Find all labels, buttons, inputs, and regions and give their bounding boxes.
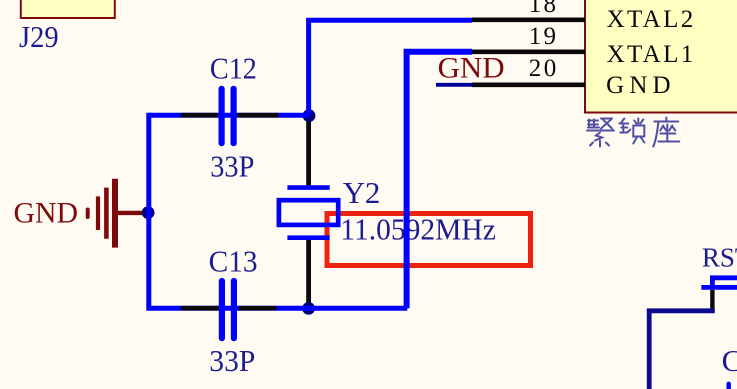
svg-text:RST: RST (702, 243, 737, 273)
capacitor C12 lead right (238, 113, 279, 118)
capacitor C13 lead left (181, 306, 219, 311)
power ground symbol (left) (88, 179, 146, 248)
svg-text:GND: GND (606, 72, 671, 99)
char 锁 (619, 119, 644, 144)
wire XTAL1 net: pin19 left then down to C13 row (over highlight box) (407, 52, 472, 308)
pin 20 lead (472, 83, 585, 88)
capacitor C12 lead left (181, 113, 218, 118)
wire XTAL2 net: pin18 left then down to node A (309, 20, 472, 115)
svg-text:C: C (722, 343, 737, 378)
wire GND stub to pin 20 (436, 83, 473, 87)
resistor pin down (710, 290, 714, 311)
svg-text:Y2: Y2 (343, 175, 381, 210)
svg-text:33P: 33P (209, 343, 255, 378)
part type text 紧锁座 (drawn strokes) (587, 118, 679, 147)
connector J29 body (top-left, cropped) (21, 0, 115, 18)
crystal Y2 pin bottom (306, 240, 311, 308)
svg-text:C13: C13 (209, 243, 258, 278)
svg-text:11.0592MHz: 11.0592MHz (340, 211, 496, 246)
svg-text:XTAL1: XTAL1 (607, 41, 694, 68)
svg-text:J29: J29 (19, 19, 59, 54)
junction node A (C12 / Y2 / XTAL2) (303, 109, 316, 122)
wire C12 row: node A to left rail (149, 113, 309, 118)
wire left rail down and C13 row (149, 113, 408, 308)
highlight box (red annotation) (327, 214, 531, 266)
svg-text:C12: C12 (210, 50, 257, 85)
wire RST net: left and down (navy) (649, 311, 715, 389)
svg-text:33P: 33P (210, 149, 254, 184)
crystal Y2 bottom plate (287, 235, 329, 240)
capacitor C12 plates (219, 89, 225, 143)
pin 19 lead (472, 49, 585, 54)
pin 18 lead (472, 17, 585, 22)
svg-text:GND: GND (14, 197, 79, 230)
junction node GND rail (142, 206, 155, 219)
junction node B (C13 / Y2 / XTAL1) (302, 302, 315, 315)
crystal Y2 top plate (287, 185, 329, 190)
crystal Y2 pin top (306, 115, 311, 186)
capacitor C13 lead right (239, 306, 277, 311)
crystal Y2 body (279, 200, 338, 225)
char 紧 (587, 119, 614, 147)
resistor R (RST pull, cropped at edge) (701, 278, 737, 288)
capacitor C13 plates (219, 281, 225, 338)
IC U1 body 紧锁座 socket (right, cropped) (585, 0, 737, 113)
svg-text:XTAL2: XTAL2 (607, 6, 694, 33)
capacitor plate tip (bottom right, cropped) (727, 384, 731, 389)
char 座 (653, 118, 679, 147)
svg-text:GND: GND (438, 51, 505, 84)
